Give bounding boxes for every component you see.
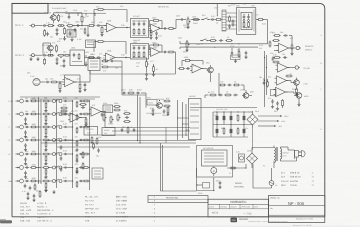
wire (145, 95, 147, 108)
wire (210, 76, 212, 82)
op-amp U8 (277, 76, 287, 85)
power row parts (209, 94, 211, 96)
resistor R20 (50, 81, 52, 83)
sheet border frame (12, 3, 325, 216)
extra parts CH-A cluster (44, 29, 46, 31)
EQ caps (133, 22, 135, 24)
resistor R5 (66, 25, 68, 27)
EQ network box Z2 (131, 19, 149, 38)
title block outline (208, 199, 269, 217)
title header dividers (219, 204, 221, 208)
resistor R12 (215, 19, 217, 21)
capacitor C5 (180, 19, 182, 21)
mixer input row 4 (9, 138, 42, 142)
ground G1 (56, 32, 58, 34)
scan edge mark bottom-left (0, 220, 12, 223)
mixer input row 5 (9, 152, 42, 156)
wire (213, 178, 215, 180)
extra bias parts (167, 106, 169, 108)
wire (273, 161, 275, 164)
transformer core (275, 147, 277, 161)
resistor R15 (56, 45, 58, 47)
resistor R37 (163, 100, 165, 102)
EQ network box Z4 (131, 44, 149, 60)
wire (196, 185, 198, 191)
extra parts rec row2 (201, 43, 202, 44)
trimmer2 (153, 65, 155, 67)
resistor R13 (257, 19, 259, 21)
wire (288, 67, 296, 69)
mixer input row 2 (9, 112, 42, 116)
resistor R18b (167, 28, 169, 30)
mode box (102, 128, 115, 136)
resistor R36 (123, 113, 125, 115)
mixer left col parts (25, 117, 27, 119)
wire (216, 3, 218, 16)
extra parts row1 (150, 29, 152, 31)
mixer bus verticals (38, 97, 40, 183)
op-amp U11 (91, 107, 101, 116)
op-amp U5 (65, 77, 75, 86)
wire (202, 68, 208, 70)
feedback box Z3 (70, 50, 85, 66)
wire (118, 27, 130, 29)
transistor Q7 (208, 67, 214, 73)
feedback loop (64, 75, 66, 77)
capacitor C14 (283, 35, 285, 37)
box Z3b (86, 40, 96, 48)
resistor R4 (64, 27, 66, 29)
feedback resistor R39 (184, 60, 186, 62)
misc wire top (93, 21, 95, 26)
resistor R16 (57, 54, 59, 56)
wire (287, 80, 292, 82)
top-left reference box (12, 3, 48, 13)
mixer row 3 network (42, 125, 78, 133)
feedback box Z1 (67, 30, 76, 37)
wire (204, 95, 206, 98)
sheet bottom border (12, 216, 325, 218)
resistor R3 (57, 25, 59, 27)
B+ rail (65, 12, 106, 14)
wire (75, 81, 91, 83)
bridge rectifier D2 (247, 153, 258, 164)
tape heads box (189, 99, 202, 140)
op-amp U3 (106, 53, 116, 62)
resistor R17 (64, 54, 66, 56)
op-amp U4 (151, 48, 161, 57)
mixer row 5 network (42, 152, 78, 160)
wire (289, 47, 297, 49)
resistor R18 (88, 57, 90, 59)
fuse F1 (269, 181, 274, 186)
mixer input row 3 (9, 125, 42, 129)
IC U12 (103, 105, 113, 113)
switch S2 (200, 40, 202, 42)
resistor R25 (209, 40, 211, 42)
wire (149, 51, 151, 53)
mixer row 7 network (42, 179, 78, 187)
op-amp U13 (192, 64, 202, 73)
bias row cluster (122, 92, 124, 94)
pot VR4 (103, 114, 105, 116)
connector J2 (32, 54, 35, 57)
motor M (211, 168, 217, 174)
transistor Q6 (243, 93, 249, 99)
mixer input row 1 (9, 99, 42, 103)
wire (241, 84, 244, 86)
relay K1 extra (243, 20, 245, 22)
box Z8 (92, 168, 103, 179)
potentiometer VR1 (187, 18, 189, 20)
relay internals (243, 15, 245, 17)
wire trunk (264, 51, 266, 107)
resistor R31 (282, 99, 284, 101)
mic input M1 (33, 78, 40, 85)
model divider 2 (269, 214, 325, 216)
revision strip box (148, 196, 208, 203)
psu caps row2 (216, 129, 219, 133)
psu caps row1 (216, 116, 219, 120)
extra trunks (165, 128, 167, 144)
resistor R1 (47, 25, 49, 27)
resistor R30 (285, 75, 287, 77)
capacitor C11 (45, 81, 47, 83)
ground G2 (56, 61, 58, 63)
psu rails (213, 111, 248, 113)
motor frame (197, 146, 233, 178)
wire bus (180, 43, 268, 45)
resistor R34 (91, 136, 93, 138)
scan noise bottom edge (0, 225, 360, 227)
mixer bus stubs (60, 145, 62, 147)
capacitor C15 (272, 99, 274, 101)
op-amp U1 (107, 23, 117, 32)
capacitor C9 (96, 57, 98, 59)
feedback resistor R19 (97, 41, 99, 43)
relay box K1 inner (241, 12, 252, 29)
capacitor C3 (76, 25, 78, 27)
osc label box (147, 100, 157, 106)
capacitor C12 (110, 60, 112, 62)
mixer row 2 network (42, 112, 78, 120)
op-amp U2 (151, 24, 161, 33)
extra summing parts (85, 117, 86, 118)
capacitor C17 (152, 108, 154, 110)
feedback resistor R19b (152, 44, 154, 46)
mixer bottom cluster (27, 192, 29, 194)
unicord logo (231, 218, 238, 223)
node wire (74, 25, 88, 27)
wire (256, 19, 258, 21)
wire (251, 148, 253, 151)
wire (173, 51, 175, 53)
connector J4 (295, 66, 298, 69)
wire trunks middle (137, 95, 139, 141)
pot VR3 (186, 41, 188, 43)
op-amp U9 (276, 87, 286, 96)
resistor R14 (47, 54, 49, 56)
resistor R22 (101, 60, 103, 62)
wire (117, 57, 130, 59)
relay box K1 outer (237, 8, 256, 35)
cha cluster extras (84, 28, 86, 30)
resistor R27 (272, 40, 274, 42)
connector J3 (296, 46, 299, 49)
mixer ground row (45, 188, 47, 190)
wire (184, 19, 186, 21)
bus lower horizontals (45, 140, 196, 142)
resistor R35 (113, 106, 115, 108)
AC plug (293, 149, 295, 151)
resistor R29 (272, 61, 274, 63)
capacitor C7 (42, 54, 44, 56)
resistor R19c (167, 51, 169, 53)
transistor Q3 (294, 80, 300, 86)
capacitor C8 (56, 57, 58, 59)
box Z6 (231, 55, 241, 60)
title row divider (208, 203, 269, 205)
resistor R11 (192, 19, 194, 21)
mixer top rail (20, 96, 100, 98)
op-amp U7 (278, 63, 288, 72)
EQ caps 2 (133, 46, 135, 48)
op-amp U6 (279, 43, 289, 52)
transistor Q1 (51, 15, 57, 21)
resistor R28 (273, 57, 275, 59)
trimmer VR2 (146, 60, 148, 62)
lamp PL1 (239, 154, 245, 162)
trunk x162 (160, 143, 162, 191)
resistor R10 (152, 20, 154, 22)
stereo amp box (84, 127, 98, 136)
resistor row R40 (219, 84, 221, 86)
op-amp U10 (70, 113, 80, 122)
mixer row 1 network (42, 99, 78, 107)
transformer T1 secondary (280, 149, 281, 159)
resistor R8 (101, 26, 103, 28)
feedback resistor R9 (97, 9, 99, 11)
mixer input row 6 (16, 166, 42, 170)
switch S1 (201, 19, 203, 21)
right col feed parts (263, 81, 265, 83)
mixer row 4 network (42, 138, 78, 146)
switch S3 (203, 183, 210, 189)
mixer row extra parts (45, 102, 47, 104)
wire (286, 91, 295, 93)
wire (173, 28, 176, 30)
transistor Q2 (48, 45, 54, 51)
resistor R24 (238, 50, 240, 52)
capacitor C13 (231, 51, 233, 53)
model divider (269, 205, 325, 207)
capacitor C4 (96, 25, 98, 27)
connector J1 (32, 24, 35, 27)
heads wiring (178, 117, 189, 119)
resistor R32 (60, 107, 62, 109)
capacitor C19 (163, 51, 165, 53)
pin strip CN1 (222, 10, 226, 31)
extra output col parts (264, 57, 265, 58)
extra motor parts (229, 167, 231, 169)
transistor Q5 (157, 103, 163, 109)
resistor R2 (58, 14, 60, 16)
motor windings (204, 152, 224, 154)
wire (263, 19, 268, 21)
resistor R23 (101, 66, 103, 68)
psu outputs (258, 115, 280, 117)
transformer T1 primary (274, 148, 276, 163)
model box (269, 196, 325, 223)
extra parts CH-B cluster (44, 58, 46, 60)
mixer row 6 network (42, 166, 78, 174)
resistor R21 (59, 82, 61, 84)
transistor Q4 (296, 93, 302, 99)
parts column (76, 148, 78, 150)
osc box Z5 (88, 59, 100, 71)
wire (149, 28, 151, 30)
box Z7 (271, 89, 277, 96)
capacitor C16 (121, 128, 123, 130)
wire (85, 57, 96, 59)
ground G3 (30, 57, 32, 59)
wire (101, 25, 106, 27)
extra psu parts (216, 111, 217, 112)
mixer input row 7 (9, 179, 42, 183)
capacitor C2 (56, 28, 58, 30)
extra mic parts (79, 83, 81, 85)
resistor R7 (88, 25, 90, 27)
resistor R38 (178, 68, 180, 70)
bus mid horizontals (105, 127, 190, 129)
resistor R33 (79, 104, 81, 106)
capacitor C6 (210, 19, 212, 21)
wire (56, 81, 64, 83)
capacitor C1 (42, 25, 44, 27)
capacitor C10 (146, 72, 148, 74)
resistor R6 (81, 15, 83, 17)
bridge rectifier D1 (247, 114, 258, 125)
wire (114, 60, 122, 62)
capacitor C18 (163, 28, 165, 30)
resistor R26 (273, 35, 275, 37)
motor box (202, 150, 228, 166)
